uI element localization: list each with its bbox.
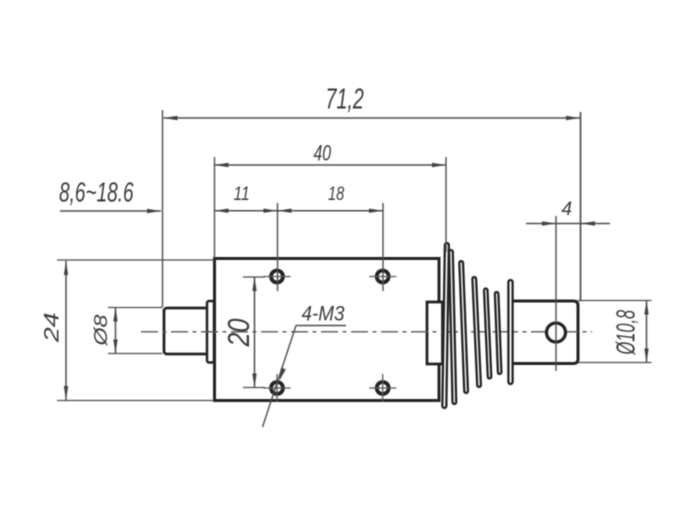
spring coil 1 xyxy=(442,243,449,408)
hole top-right M3 xyxy=(369,271,396,283)
extension line shaft hole center xyxy=(555,216,557,371)
dimension 71,2 xyxy=(164,84,581,120)
dimension 40 xyxy=(215,142,447,167)
centerline xyxy=(141,331,592,333)
spring coil 2 xyxy=(449,250,456,404)
extension line right overall xyxy=(580,112,582,300)
svg-text:20: 20 xyxy=(220,318,255,347)
spring coil 5 xyxy=(484,288,491,378)
extension line hole column 2 xyxy=(382,203,384,291)
right shaft xyxy=(511,301,578,364)
spring coil 4 xyxy=(472,277,481,387)
hole top-left M3 xyxy=(264,271,291,283)
dimension 11 xyxy=(215,182,278,213)
svg-text:18: 18 xyxy=(328,182,345,205)
shaft hole xyxy=(547,323,566,342)
extension line left overall xyxy=(162,110,164,307)
dimension 4 (hole to shaft end) xyxy=(526,199,610,226)
body xyxy=(215,259,440,401)
spring coil 6 xyxy=(495,292,502,374)
label 4-M3 with leader xyxy=(263,303,347,427)
dimension 8,6~18.6 stroke range xyxy=(59,177,161,213)
svg-text:40: 40 xyxy=(314,142,332,166)
spring coil 3 xyxy=(459,261,468,393)
hole bottom-right M3 xyxy=(369,374,396,402)
extension line hole column 1 xyxy=(277,203,279,291)
left plunger shaft xyxy=(164,308,210,354)
spring coil 7 xyxy=(508,280,512,384)
svg-text:71,2: 71,2 xyxy=(326,84,365,116)
extension line 40 right xyxy=(445,157,447,252)
svg-text:24: 24 xyxy=(40,312,64,343)
svg-text:4: 4 xyxy=(562,199,573,220)
right hub xyxy=(427,302,443,364)
dimension 18 xyxy=(278,182,384,213)
svg-text:Ø8: Ø8 xyxy=(91,314,111,346)
extension line 40 left / body edge xyxy=(214,157,216,258)
dimension diameter 10,8 xyxy=(578,301,652,363)
dimension diameter 8 xyxy=(91,308,162,354)
svg-text:11: 11 xyxy=(234,182,250,204)
svg-text:4-M3: 4-M3 xyxy=(302,303,345,326)
dimension 24 height xyxy=(40,260,214,401)
svg-text:Ø10,8: Ø10,8 xyxy=(611,310,641,355)
svg-text:8,6~18.6: 8,6~18.6 xyxy=(59,177,134,209)
plunger flange xyxy=(207,301,214,363)
hole bottom-left M3 xyxy=(264,374,291,402)
dimension 20 hole spacing xyxy=(220,277,265,388)
